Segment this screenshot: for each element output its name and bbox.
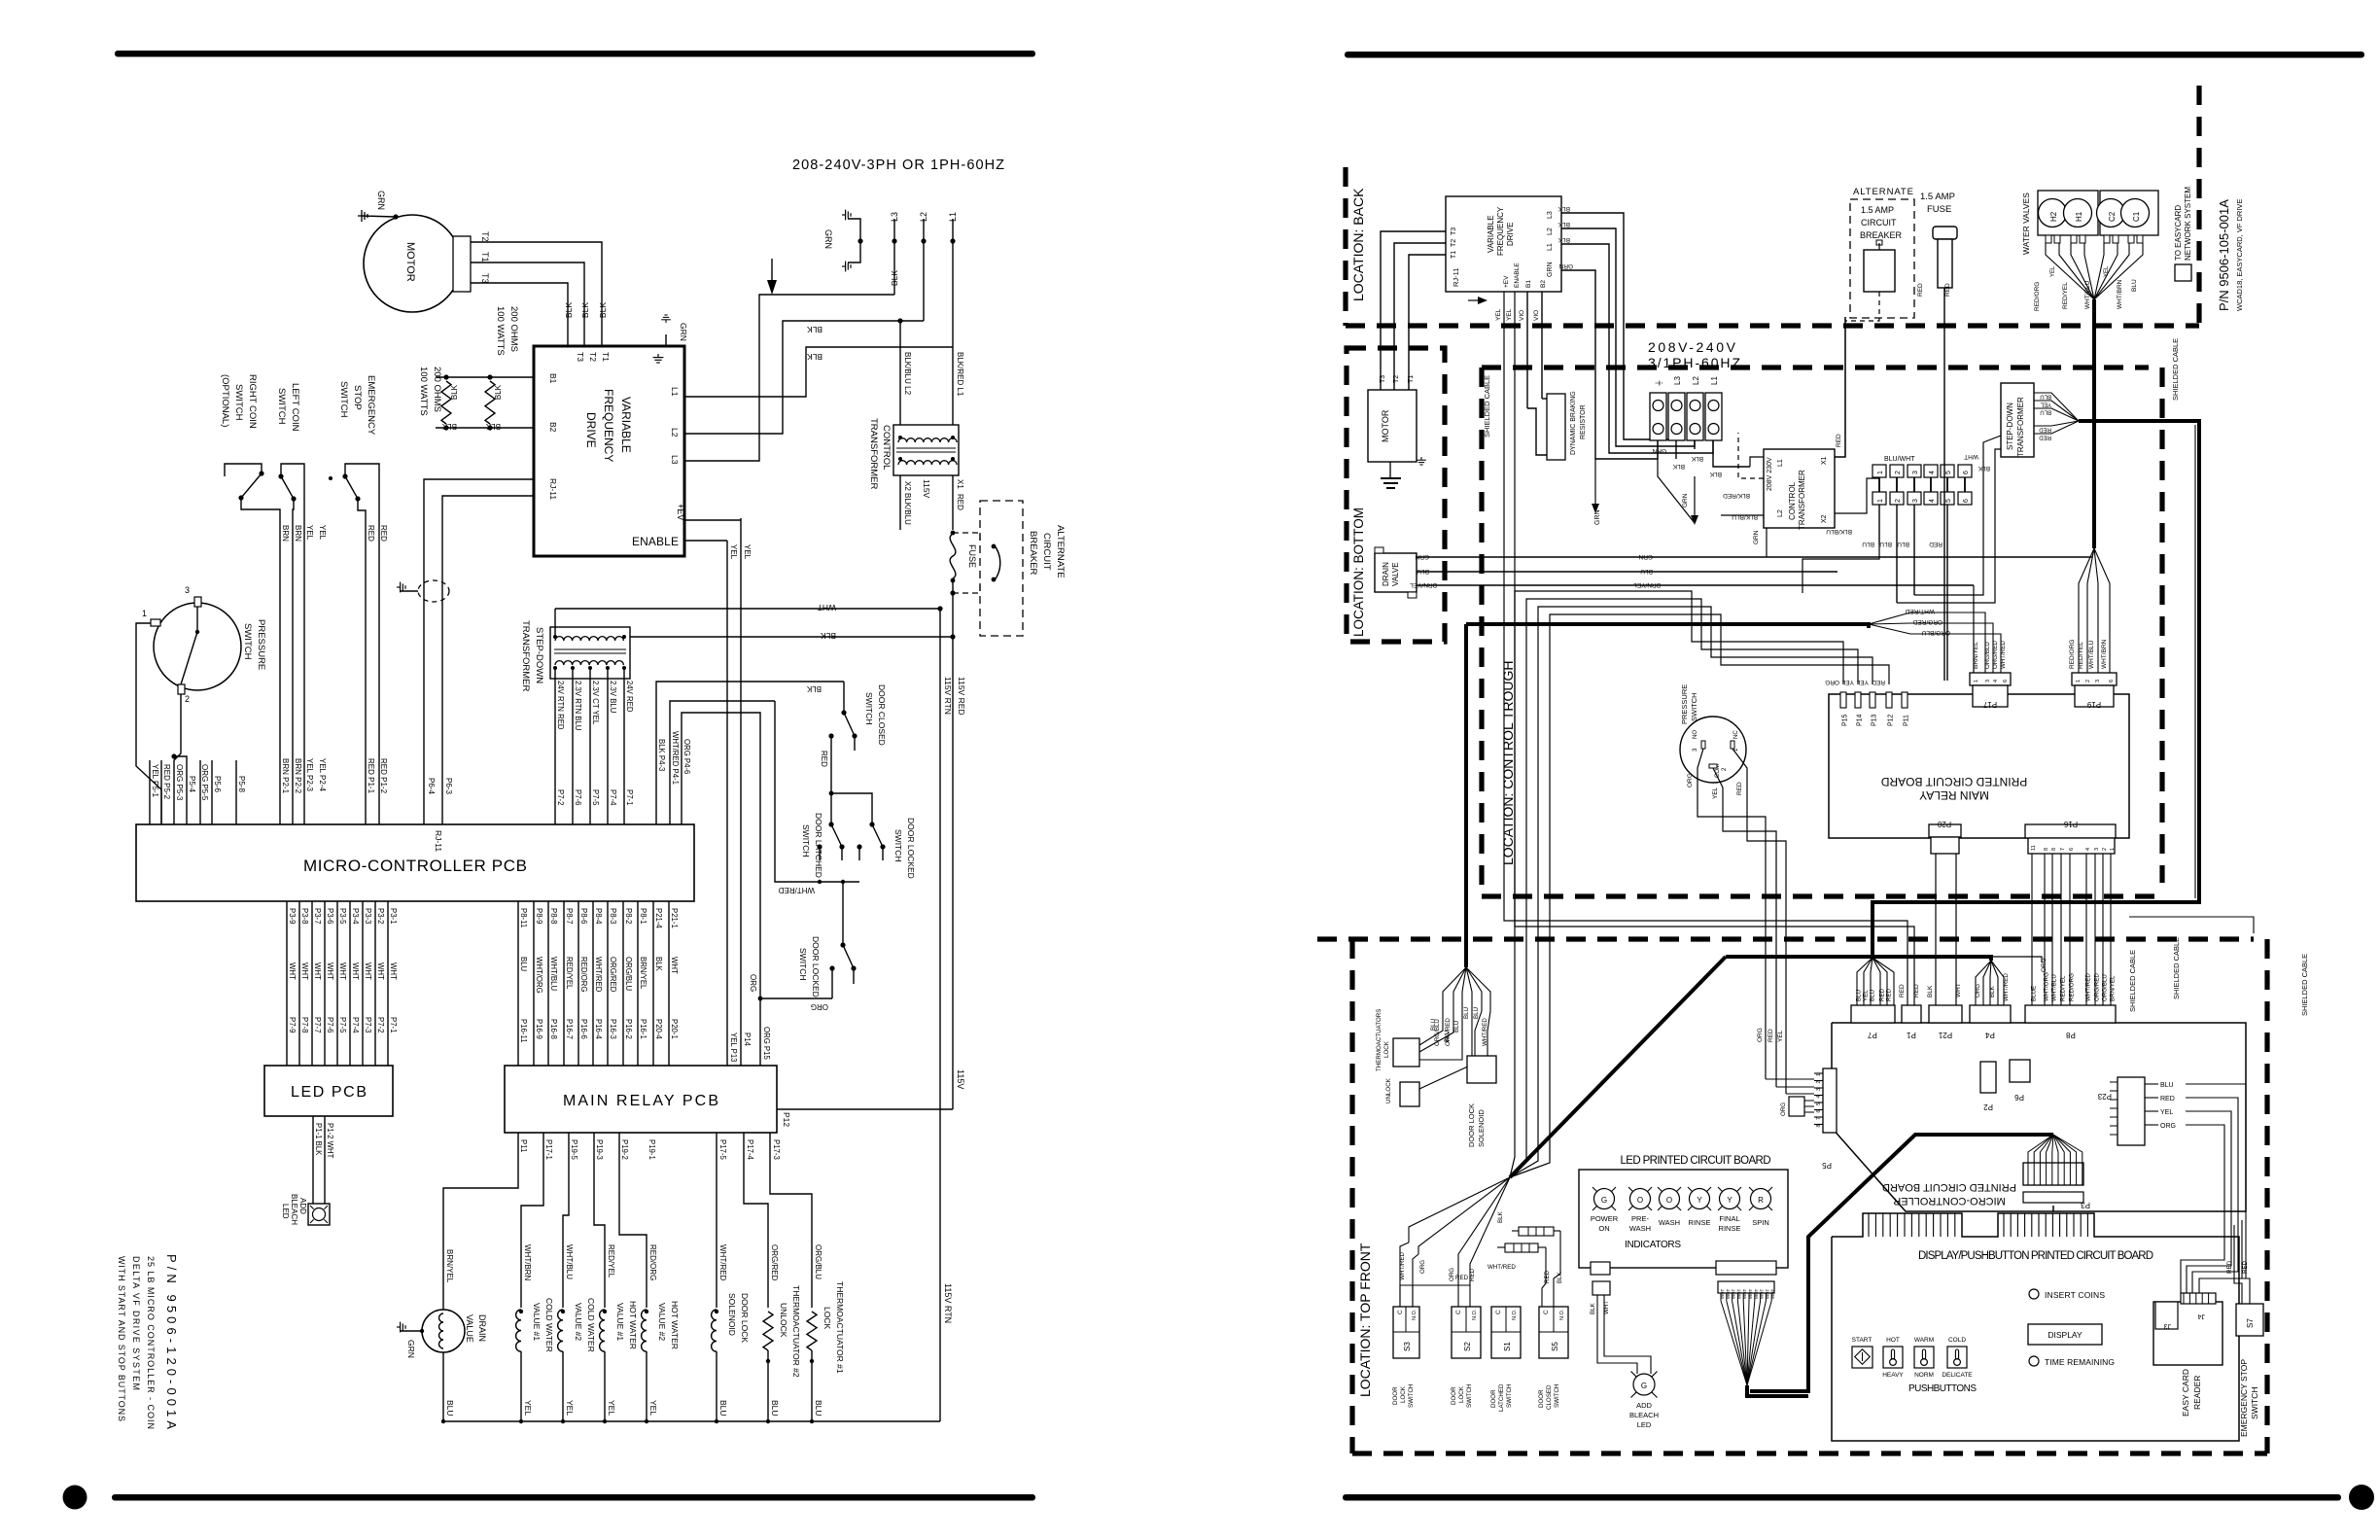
svg-text:GRN: GRN	[1682, 493, 1689, 507]
page bottom rule left sheet	[112, 1494, 1035, 1501]
svg-text:BLU: BLU	[1856, 990, 1863, 1001]
svg-text:WHT: WHT	[326, 962, 334, 980]
svg-text:L1: L1	[670, 387, 680, 397]
svg-text:P21: P21	[1938, 1031, 1952, 1039]
location top front dashed border	[1349, 939, 1354, 1453]
svg-text:P14: P14	[743, 1032, 752, 1047]
svg-text:MAIN RELAY: MAIN RELAY	[1919, 788, 1989, 802]
svg-text:RED: RED	[2242, 1260, 2249, 1274]
svg-text:2: 2	[2085, 680, 2091, 682]
svg-text:FINAL: FINAL	[1719, 1214, 1739, 1223]
svg-text:2: 2	[1895, 499, 1902, 503]
thick cable door-lock harness	[1466, 624, 1869, 628]
svg-text:LEFT COIN: LEFT COIN	[290, 383, 300, 432]
control transformer T3 (right sheet)	[1764, 449, 1835, 528]
svg-text:BLK: BLK	[580, 302, 590, 318]
connector P7 on micro PCB	[1851, 1005, 1895, 1023]
svg-text:L2: L2	[1547, 227, 1554, 235]
wire RED from breaker region down-left	[1844, 317, 1846, 457]
svg-text:FREQUENCY: FREQUENCY	[1496, 206, 1505, 256]
svg-text:TRANSFORMER: TRANSFORMER	[868, 418, 879, 490]
drain valve box (right sheet)	[1375, 553, 1417, 592]
wire VFD L1 riser	[684, 347, 953, 397]
door lock solenoid L5	[712, 1310, 717, 1351]
svg-text:VALUE #1: VALUE #1	[532, 1303, 542, 1341]
svg-text:T2: T2	[480, 231, 490, 242]
svg-text:P13: P13	[1872, 714, 1878, 726]
svg-text:P5-4: P5-4	[188, 776, 196, 792]
svg-text:P19-1: P19-1	[647, 1139, 656, 1160]
svg-text:START: START	[1852, 1337, 1872, 1344]
svg-text:RED: RED	[1872, 679, 1885, 685]
svg-text:BRN: BRN	[294, 525, 302, 542]
svg-text:RED: RED	[1879, 988, 1886, 1001]
svg-text:H1: H1	[2075, 211, 2083, 222]
svg-text:G: G	[1641, 1382, 1647, 1390]
svg-text:P/N 9506-105-001A: P/N 9506-105-001A	[2217, 199, 2231, 311]
svg-text:BRN/YEL: BRN/YEL	[1410, 581, 1437, 588]
svg-text:YEL: YEL	[2104, 265, 2110, 277]
svg-text:TRANSFORMER: TRANSFORMER	[520, 620, 531, 692]
svg-text:8: 8	[2051, 848, 2057, 851]
svg-text:WHT/BLU: WHT/BLU	[565, 1244, 574, 1279]
wires RJ-11 from VFD	[424, 479, 534, 824]
page bottom rule right sheet	[1343, 1494, 2341, 1501]
door chain wires BLK WHT/RED ORG	[656, 682, 844, 824]
svg-text:ORG: ORG	[2160, 1123, 2176, 1130]
svg-text:1.5 AMP: 1.5 AMP	[1920, 192, 1955, 202]
svg-text:ORG/BLU: ORG/BLU	[2102, 974, 2109, 1001]
svg-text:WHT: WHT	[364, 962, 372, 980]
svg-text:BRN/YEL: BRN/YEL	[2110, 975, 2117, 1001]
svg-text:BLU: BLU	[1430, 1019, 1437, 1031]
svg-text:RED P1-2: RED P1-2	[379, 758, 388, 794]
svg-text:ORG/RED: ORG/RED	[770, 1244, 779, 1281]
svg-text:BLK: BLK	[806, 684, 822, 693]
svg-text:WHT: WHT	[1748, 1289, 1753, 1299]
svg-text:BLEACH: BLEACH	[290, 1194, 298, 1225]
svg-text:X2 BLK/BLU: X2 BLK/BLU	[903, 481, 912, 525]
wire BLK/BLU L2 drop to control transformer	[899, 321, 901, 425]
svg-text:L1: L1	[1710, 376, 1719, 385]
svg-text:GRN: GRN	[406, 1340, 416, 1358]
svg-text:RED: RED	[2160, 1096, 2175, 1102]
svg-text:115V RED: 115V RED	[957, 677, 966, 716]
svg-text:WHT: WHT	[351, 962, 360, 980]
svg-text:PRESSURE: PRESSURE	[256, 619, 266, 670]
svg-text:BLK/BLU: BLK/BLU	[1826, 528, 1852, 535]
svg-text:YEL: YEL	[1856, 679, 1869, 685]
main relay PCB (right sheet)	[1829, 694, 2129, 838]
svg-text:P1: P1	[1907, 1031, 1916, 1039]
wire X1 drop to fuse	[952, 475, 954, 530]
svg-text:WHT: WHT	[300, 962, 309, 980]
svg-text:WHT: WHT	[389, 962, 398, 980]
binder hole left	[63, 1486, 87, 1510]
svg-text:YEL P2-4: YEL P2-4	[318, 758, 327, 791]
svg-text:ORG/BLU: ORG/BLU	[1984, 642, 1991, 669]
svg-text:P7-4: P7-4	[351, 1017, 360, 1033]
dynamic braking resistor R5	[1547, 394, 1565, 460]
svg-text:BRN/YEL: BRN/YEL	[639, 957, 647, 990]
wire motor T1 to VFD T2	[471, 262, 584, 346]
svg-text:11: 11	[2031, 845, 2037, 851]
svg-text:SWITCH: SWITCH	[276, 388, 287, 425]
svg-text:DOOR: DOOR	[1538, 1389, 1545, 1408]
svg-text:SWITCH: SWITCH	[1554, 1384, 1560, 1408]
svg-text:GRN: GRN	[1753, 530, 1760, 544]
terminal strip 1-6	[1872, 465, 1886, 477]
svg-text:TO EASYCARD: TO EASYCARD	[2174, 205, 2183, 261]
svg-text:YEL: YEL	[305, 525, 314, 541]
svg-text:SOLENOID: SOLENOID	[727, 1293, 737, 1336]
thin shielded box around P23 wires	[2129, 917, 2254, 933]
thermoactuator 2 unlock R3	[763, 1312, 773, 1350]
svg-text:RJ-11: RJ-11	[1452, 268, 1460, 287]
svg-text:T2: T2	[1451, 239, 1457, 247]
svg-text:4: 4	[1929, 499, 1936, 503]
svg-text:P8-1: P8-1	[639, 908, 647, 924]
svg-text:BLK: BLK	[1557, 205, 1570, 212]
svg-text:S5: S5	[1551, 1342, 1559, 1351]
door latched switch S1	[1491, 1307, 1521, 1358]
water valve fan wires to trunk	[2046, 243, 2094, 299]
svg-text:P5-8: P5-8	[237, 776, 246, 792]
svg-text:1: 1	[1877, 471, 1884, 474]
svg-text:BLK: BLK	[441, 422, 457, 431]
svg-text:BLK: BLK	[450, 384, 459, 400]
svg-text:WHT/ORG: WHT/ORG	[535, 957, 543, 994]
svg-text:DOOR: DOOR	[1392, 1386, 1399, 1405]
pressure switch wires	[196, 607, 198, 632]
svg-text:P8-6: P8-6	[579, 908, 588, 924]
svg-text:100 WATTS: 100 WATTS	[418, 367, 429, 416]
svg-text:P16-11: P16-11	[519, 1019, 528, 1043]
svg-text:6: 6	[2109, 680, 2115, 682]
trunk fan into P7	[1857, 958, 1872, 1005]
svg-text:BLU: BLU	[445, 1400, 455, 1417]
svg-text:RED: RED	[956, 494, 964, 510]
svg-text:3: 3	[1816, 1088, 1822, 1091]
svg-text:L1: L1	[948, 212, 958, 222]
svg-text:WHT/BLU: WHT/BLU	[2051, 974, 2058, 1001]
wire P19-3 to hot water valve 1	[594, 1133, 605, 1308]
svg-text:208V-240V: 208V-240V	[1648, 339, 1736, 355]
svg-text:Y: Y	[1727, 1196, 1732, 1205]
svg-text:BREAKER: BREAKER	[1860, 230, 1903, 240]
svg-text:LATCHED: LATCHED	[1498, 1383, 1505, 1412]
115V RTN bottom bus	[443, 1420, 940, 1422]
svg-text:P20: P20	[1937, 820, 1951, 828]
svg-text:PRE-: PRE-	[1631, 1214, 1649, 1223]
svg-text:LOCATION: BACK: LOCATION: BACK	[1350, 188, 1366, 301]
svg-text:Y: Y	[1697, 1196, 1702, 1205]
svg-text:J3: J3	[2164, 1322, 2172, 1329]
svg-text:24V RED: 24V RED	[625, 681, 634, 713]
svg-text:ENABLE: ENABLE	[632, 535, 679, 548]
svg-text:BLK: BLK	[1691, 455, 1703, 462]
svg-text:SWITCH: SWITCH	[801, 824, 811, 857]
svg-text:P23: P23	[2097, 1092, 2112, 1101]
svg-text:L2: L2	[1777, 509, 1784, 517]
wire B1 bus	[436, 376, 534, 378]
svg-text:BLK: BLK	[494, 384, 503, 400]
wire X1 RED riser to fuse	[1835, 317, 1845, 457]
svg-text:DRAIN: DRAIN	[1382, 562, 1390, 586]
svg-text:SWITCH: SWITCH	[1690, 692, 1698, 721]
svg-text:6: 6	[1963, 499, 1970, 503]
svg-text:4: 4	[1993, 680, 1999, 682]
svg-text:ENABLE: ENABLE	[1514, 262, 1521, 288]
svg-text:200 OHMS: 200 OHMS	[508, 306, 519, 352]
svg-text:P21-4: P21-4	[654, 908, 663, 928]
svg-text:P19-5: P19-5	[570, 1139, 578, 1160]
location back dashed border	[1343, 167, 1347, 326]
L1 L2 L3 supply lines top	[893, 219, 895, 295]
svg-text:RED: RED	[1913, 984, 1920, 997]
svg-text:PRINTED CIRCUIT BOARD: PRINTED CIRCUIT BOARD	[1880, 775, 2027, 788]
svg-text:COLD WATER: COLD WATER	[586, 1298, 596, 1352]
svg-text:ORG/RED: ORG/RED	[1912, 618, 1942, 625]
svg-text:LED: LED	[1637, 1420, 1652, 1429]
display/pushbutton printed circuit board	[1832, 1213, 2239, 1441]
svg-text:C: C	[1455, 1310, 1462, 1314]
svg-text:VALUE #2: VALUE #2	[574, 1303, 583, 1341]
svg-text:BLK: BLK	[598, 302, 608, 318]
svg-text:6: 6	[1816, 1110, 1822, 1113]
svg-text:O: O	[1666, 1196, 1672, 1205]
svg-text:DOOR CLOSED: DOOR CLOSED	[877, 684, 887, 746]
svg-text:ORG P5-3: ORG P5-3	[175, 764, 184, 801]
emergency stop switch S7	[2236, 1304, 2263, 1336]
svg-text:P20-1: P20-1	[670, 1019, 679, 1039]
svg-text:WHT: WHT	[1736, 1289, 1741, 1299]
svg-text:ALTERNATE: ALTERNATE	[1853, 187, 1913, 197]
svg-text:P16-2: P16-2	[624, 1019, 633, 1039]
svg-text:3: 3	[1912, 499, 1919, 503]
thick trunk water valves	[2092, 299, 2096, 548]
svg-text:BLK: BLK	[1672, 463, 1685, 470]
svg-text:WHT: WHT	[1754, 1289, 1759, 1299]
svg-text:BLK: BLK	[1977, 465, 1990, 472]
step-down transformer T2 (left sheet)	[550, 627, 630, 679]
micro-controller PCB U2	[136, 824, 694, 901]
svg-text:ORG/RED: ORG/RED	[1992, 641, 1999, 669]
thermoactuators boxes	[1393, 1038, 1419, 1067]
svg-text:P16: P16	[2063, 820, 2078, 828]
svg-text:2.3V RTN BLU: 2.3V RTN BLU	[574, 681, 582, 731]
wire motor T2 to VFD T1	[471, 242, 602, 346]
svg-text:WHT/RED: WHT/RED	[2000, 641, 2007, 669]
svg-text:GRN: GRN	[1638, 553, 1653, 560]
svg-text:WHT: WHT	[376, 962, 385, 980]
ground at motor	[362, 216, 396, 217]
step-down secondary taps to micro PCB	[554, 668, 556, 824]
svg-text:SWITCH: SWITCH	[864, 692, 874, 725]
svg-text:BLU/WHT: BLU/WHT	[1884, 456, 1915, 463]
svg-text:RED/ORG: RED/ORG	[2069, 973, 2076, 1001]
svg-text:TRANSFORMER: TRANSFORMER	[2016, 397, 2025, 457]
svg-text:R: R	[1758, 1196, 1764, 1205]
svg-text:WATER VALVES: WATER VALVES	[2021, 192, 2031, 255]
svg-text:YEL: YEL	[523, 1400, 533, 1416]
trunk fan to P19	[2079, 548, 2094, 673]
svg-text:WASH: WASH	[1629, 1224, 1651, 1233]
svg-text:1: 1	[1877, 499, 1884, 503]
svg-text:ORG: ORG	[1687, 773, 1694, 787]
terminal block TB1	[1650, 393, 1666, 440]
svg-text:P7: P7	[1868, 1031, 1877, 1039]
time remaining	[2029, 1356, 2039, 1366]
page top rule right sheet	[1345, 52, 2364, 58]
svg-text:ORG: ORG	[1975, 984, 1981, 997]
svg-text:YEL: YEL	[2160, 1109, 2173, 1116]
motor M (left sheet)	[364, 215, 461, 312]
svg-text:4: 4	[2085, 848, 2091, 851]
svg-text:RED: RED	[1929, 541, 1942, 547]
coil top dots	[519, 1310, 523, 1313]
115V feed line	[952, 609, 954, 1109]
svg-text:BLU: BLU	[1862, 541, 1874, 547]
svg-text:⏚: ⏚	[1655, 379, 1663, 387]
add bleach LED D1	[308, 1204, 330, 1225]
wires terminal strip to step-down input	[1914, 436, 2001, 595]
svg-text:READER: READER	[2192, 1376, 2202, 1410]
svg-text:T1: T1	[601, 352, 611, 362]
svg-text:L1: L1	[1547, 243, 1554, 251]
svg-text:SHIELDED CABLE: SHIELDED CABLE	[2172, 937, 2181, 999]
svg-text:SWITCH: SWITCH	[1408, 1384, 1415, 1408]
svg-text:FREQUENCY: FREQUENCY	[602, 389, 615, 462]
svg-text:25 LB MICRO CONTROLLER - COIN: 25 LB MICRO CONTROLLER - COIN	[146, 1256, 156, 1429]
svg-text:RED: RED	[820, 751, 828, 767]
svg-text:RED: RED	[1886, 988, 1893, 1001]
thermoactuator 1 lock R4	[807, 1312, 817, 1350]
svg-text:T2: T2	[588, 352, 598, 362]
svg-text:BRN/YEL: BRN/YEL	[1633, 581, 1661, 588]
svg-text:RED/ORG: RED/ORG	[579, 957, 588, 992]
svg-text:6: 6	[2069, 848, 2075, 851]
terminal strip lower wires	[1878, 505, 1880, 544]
svg-text:C: C	[1543, 1310, 1550, 1314]
connector P4	[1970, 1005, 2011, 1023]
svg-text:RED/YEL: RED/YEL	[2078, 642, 2084, 669]
motor box (right sheet)	[1368, 390, 1417, 462]
svg-text:RINSE: RINSE	[1689, 1218, 1711, 1227]
connector P5 comb	[1823, 1068, 1837, 1133]
svg-text:T1: T1	[1408, 375, 1415, 383]
svg-text:X1: X1	[956, 479, 964, 489]
svg-text:WHT: WHT	[1770, 1289, 1775, 1299]
svg-text:P8-7: P8-7	[565, 908, 574, 924]
svg-text:ORG: ORG	[2041, 958, 2047, 972]
svg-text:S2: S2	[1463, 1342, 1472, 1351]
wire motor T3 to VFD T3	[471, 283, 568, 346]
svg-text:BLU: BLU	[519, 957, 528, 972]
svg-text:RED/ORG: RED/ORG	[648, 1244, 657, 1280]
svg-text:WCAD18, EASYCARD, VF DRIVE: WCAD18, EASYCARD, VF DRIVE	[2235, 199, 2244, 311]
wire P11 to drain valve	[443, 1133, 518, 1310]
insert coins	[2029, 1289, 2039, 1299]
svg-text:SWITCH: SWITCH	[242, 623, 253, 660]
svg-text:5: 5	[1816, 1102, 1822, 1105]
svg-text:BLU: BLU	[1473, 1007, 1480, 1019]
svg-text:P21-1: P21-1	[670, 908, 679, 928]
svg-text:C1: C1	[2132, 211, 2141, 222]
svg-text:P19: P19	[2086, 700, 2101, 709]
connector P1	[1902, 1005, 1921, 1023]
svg-text:CONTROL: CONTROL	[1788, 481, 1797, 520]
svg-text:BRN P2-1: BRN P2-1	[281, 758, 290, 794]
svg-text:T3: T3	[480, 273, 490, 284]
svg-text:WHT/RED: WHT/RED	[594, 957, 603, 993]
svg-text:P14: P14	[1857, 714, 1864, 726]
svg-text:VIO: VIO	[1519, 310, 1525, 321]
svg-text:ORG: ORG	[1757, 1028, 1764, 1042]
svg-text:WHT: WHT	[1726, 1289, 1731, 1299]
svg-text:SWITCH: SWITCH	[1466, 1384, 1473, 1408]
svg-text:BLK: BLK	[1557, 1271, 1563, 1283]
svg-text:UNLOCK: UNLOCK	[1385, 1077, 1392, 1103]
variable frequency drive U1	[534, 346, 684, 556]
svg-text:PRINTED CIRCUIT BOARD: PRINTED CIRCUIT BOARD	[1882, 1181, 2016, 1193]
svg-text:YEL: YEL	[607, 1400, 616, 1416]
svg-text:ORG/RED: ORG/RED	[2094, 973, 2101, 1001]
svg-text:P3-2: P3-2	[376, 908, 385, 924]
binder hole right	[2349, 1485, 2374, 1510]
svg-text:WHT/BRN: WHT/BRN	[2101, 639, 2108, 669]
svg-text:P3-7: P3-7	[313, 908, 322, 924]
connector P17	[1970, 673, 2011, 685]
svg-text:L1: L1	[1777, 459, 1784, 467]
svg-text:WHT: WHT	[288, 962, 297, 980]
wire P19-5 to cold water valve 2	[563, 1133, 569, 1308]
svg-text:BLK P4-3: BLK P4-3	[657, 739, 666, 771]
svg-text:RED: RED	[1544, 1270, 1551, 1283]
svg-text:X2: X2	[1821, 514, 1828, 523]
svg-text:P16-6: P16-6	[579, 1019, 588, 1039]
braking resistor R1 200 OHMS 100 WATTS	[441, 381, 451, 424]
svg-text:T1: T1	[480, 252, 490, 262]
svg-text:YEL: YEL	[1495, 308, 1502, 321]
svg-text:115V: 115V	[956, 1069, 965, 1089]
svg-text:P8-4: P8-4	[594, 908, 603, 925]
svg-text:WHT: WHT	[1742, 1289, 1747, 1299]
svg-text:115V: 115V	[922, 479, 931, 499]
svg-text:VARIABLE: VARIABLE	[619, 397, 633, 453]
svg-text:ALTERNATE: ALTERNATE	[1055, 525, 1066, 578]
svg-text:P7-2: P7-2	[376, 1017, 385, 1032]
svg-text:BLK: BLK	[654, 957, 663, 972]
step-down transformer T4 (right sheet)	[2001, 383, 2034, 457]
svg-text:ORG/RED: ORG/RED	[609, 957, 617, 993]
svg-text:B1: B1	[548, 373, 558, 384]
svg-text:DRIVE: DRIVE	[1506, 223, 1515, 246]
svg-text:BLK: BLK	[1557, 236, 1570, 243]
svg-text:ORG/BLU: ORG/BLU	[624, 957, 633, 991]
connector P23 and wires right	[2117, 1077, 2145, 1145]
svg-text:WHT/BLU: WHT/BLU	[2084, 280, 2091, 309]
pressure switch PS1	[154, 603, 241, 690]
svg-text:BLK: BLK	[890, 270, 899, 286]
wires YEL YEL ORG to main relay	[726, 541, 728, 1066]
svg-text:CIRCUIT: CIRCUIT	[1861, 218, 1897, 227]
svg-text:WHT/RED P4-1: WHT/RED P4-1	[671, 731, 680, 785]
svg-text:VIO: VIO	[1533, 310, 1540, 321]
braking resistor R2 200 OHMS 100 WATTS	[485, 381, 495, 424]
hot water valve 1 L3	[600, 1310, 605, 1351]
svg-text:P6-3: P6-3	[444, 778, 453, 794]
